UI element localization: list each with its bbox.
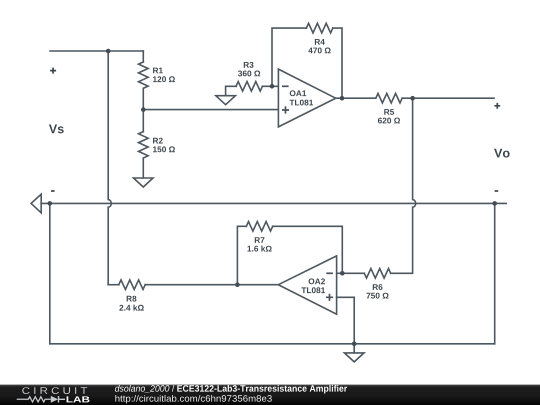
wire OA1 output to R5 left lead xyxy=(336,97,376,99)
wire node A down left column with hop over minus rail xyxy=(108,51,111,285)
junction node C dot xyxy=(270,84,275,89)
junction node J dot on bottom rail xyxy=(352,342,357,347)
resistor R5 xyxy=(376,93,402,103)
wire node H up and over R7 feedback xyxy=(273,226,343,273)
logo LAB wordmark xyxy=(67,396,90,402)
op-amp OA2 minus pin mark xyxy=(326,272,333,274)
terminal Vs minus mark xyxy=(51,190,55,192)
wire R8 right lead through node I to OA2 output apex xyxy=(145,284,278,286)
wire R1 bottom to R2 top through node B xyxy=(142,88,144,131)
wire node E down to R6 with hop over minus rail xyxy=(391,98,416,273)
junction node F dot xyxy=(48,201,53,206)
wire R1 top lead xyxy=(142,51,144,62)
resistor R2 xyxy=(139,132,149,158)
resistor R8 xyxy=(119,280,145,290)
logo CIRCUIT wordmark xyxy=(22,387,87,394)
ground symbol below bottom rail xyxy=(344,353,364,362)
label R5 refdes xyxy=(384,109,394,115)
ground symbol below R2 xyxy=(134,178,154,187)
junction node I dot xyxy=(235,282,240,287)
label R7 value xyxy=(247,245,271,251)
label R4 value xyxy=(308,48,330,54)
footer attribution line 1 xyxy=(115,385,347,394)
wire R5 right lead to Vo plus terminal through node E xyxy=(402,97,494,99)
label OA2 refdes xyxy=(309,278,325,284)
wire R2 bottom lead to ground xyxy=(142,158,144,178)
wire Vs plus terminal to node A xyxy=(50,50,143,52)
op-amp OA2 plus pin mark xyxy=(326,294,333,301)
label R2 refdes xyxy=(153,138,163,144)
label R3 refdes xyxy=(244,62,254,68)
label R2 value xyxy=(153,146,175,152)
label R6 refdes xyxy=(373,284,383,290)
label R8 refdes xyxy=(127,296,137,302)
label OA1 refdes xyxy=(290,90,306,96)
label Vs source name xyxy=(49,125,64,134)
wire R4 right lead down to output node D xyxy=(333,28,342,98)
footer url line 2 xyxy=(115,395,271,404)
wire node F down to bottom ground rail xyxy=(49,203,51,343)
op-amp OA1 minus pin mark xyxy=(282,85,289,87)
logo diode bar xyxy=(59,396,66,403)
label R5 value xyxy=(378,118,400,124)
op-amp OA1 plus pin mark xyxy=(282,106,289,113)
wire R3 left lead to ground xyxy=(226,86,237,95)
resistor R1 xyxy=(139,62,149,88)
wire R7 left lead down to node I xyxy=(237,226,246,284)
label R6 value xyxy=(366,293,388,299)
label Vo output name xyxy=(494,149,510,158)
footer bar background xyxy=(0,385,540,405)
port arrow at Vs minus terminal xyxy=(31,194,41,213)
resistor R3 xyxy=(236,82,262,92)
terminal Vo minus mark xyxy=(495,190,499,192)
op-amp OA2 triangle mirrored xyxy=(278,256,336,314)
wire left column corner into R8 left lead xyxy=(108,284,119,286)
logo wire with resistor squiggle xyxy=(17,397,51,402)
wire node C up and over to R4 left lead xyxy=(272,28,306,86)
wire bottom ground rail xyxy=(50,343,495,345)
wire R3 right lead to node C at OA1 minus input xyxy=(262,85,278,87)
wire ground stub below node J xyxy=(353,344,355,353)
resistor R6 xyxy=(364,268,390,278)
junction node E dot xyxy=(410,96,415,101)
op-amp OA1 triangle xyxy=(278,69,335,127)
label R7 refdes xyxy=(255,237,265,243)
label R1 value xyxy=(153,76,175,82)
wire minus rail from port arrow to right stub xyxy=(41,202,506,204)
label R1 refdes xyxy=(153,68,163,74)
wire OA2 minus input through node H to R6 left lead xyxy=(337,272,365,274)
wire OA2 plus input right then down to bottom rail xyxy=(337,297,355,344)
label OA1 part TL081 xyxy=(289,100,313,106)
terminal Vs plus mark xyxy=(50,68,56,74)
label R4 refdes xyxy=(315,39,325,45)
wire node G down right side to bottom rail xyxy=(494,203,496,343)
resistor R4 xyxy=(306,23,332,33)
label R8 value xyxy=(119,305,143,311)
terminal Vo plus mark xyxy=(494,103,500,109)
junction node H dot xyxy=(340,271,345,276)
label R3 value xyxy=(238,71,260,77)
junction node B dot xyxy=(141,107,146,112)
junction node G dot xyxy=(492,201,497,206)
junction node D dot xyxy=(340,96,345,101)
logo diode symbol xyxy=(51,396,58,403)
label OA2 part TL081 xyxy=(301,287,325,293)
junction node A dot xyxy=(106,49,111,54)
resistor R7 xyxy=(246,222,272,232)
ground symbol left of R3 xyxy=(216,96,236,105)
wire node B to OA1 plus input xyxy=(143,109,278,111)
